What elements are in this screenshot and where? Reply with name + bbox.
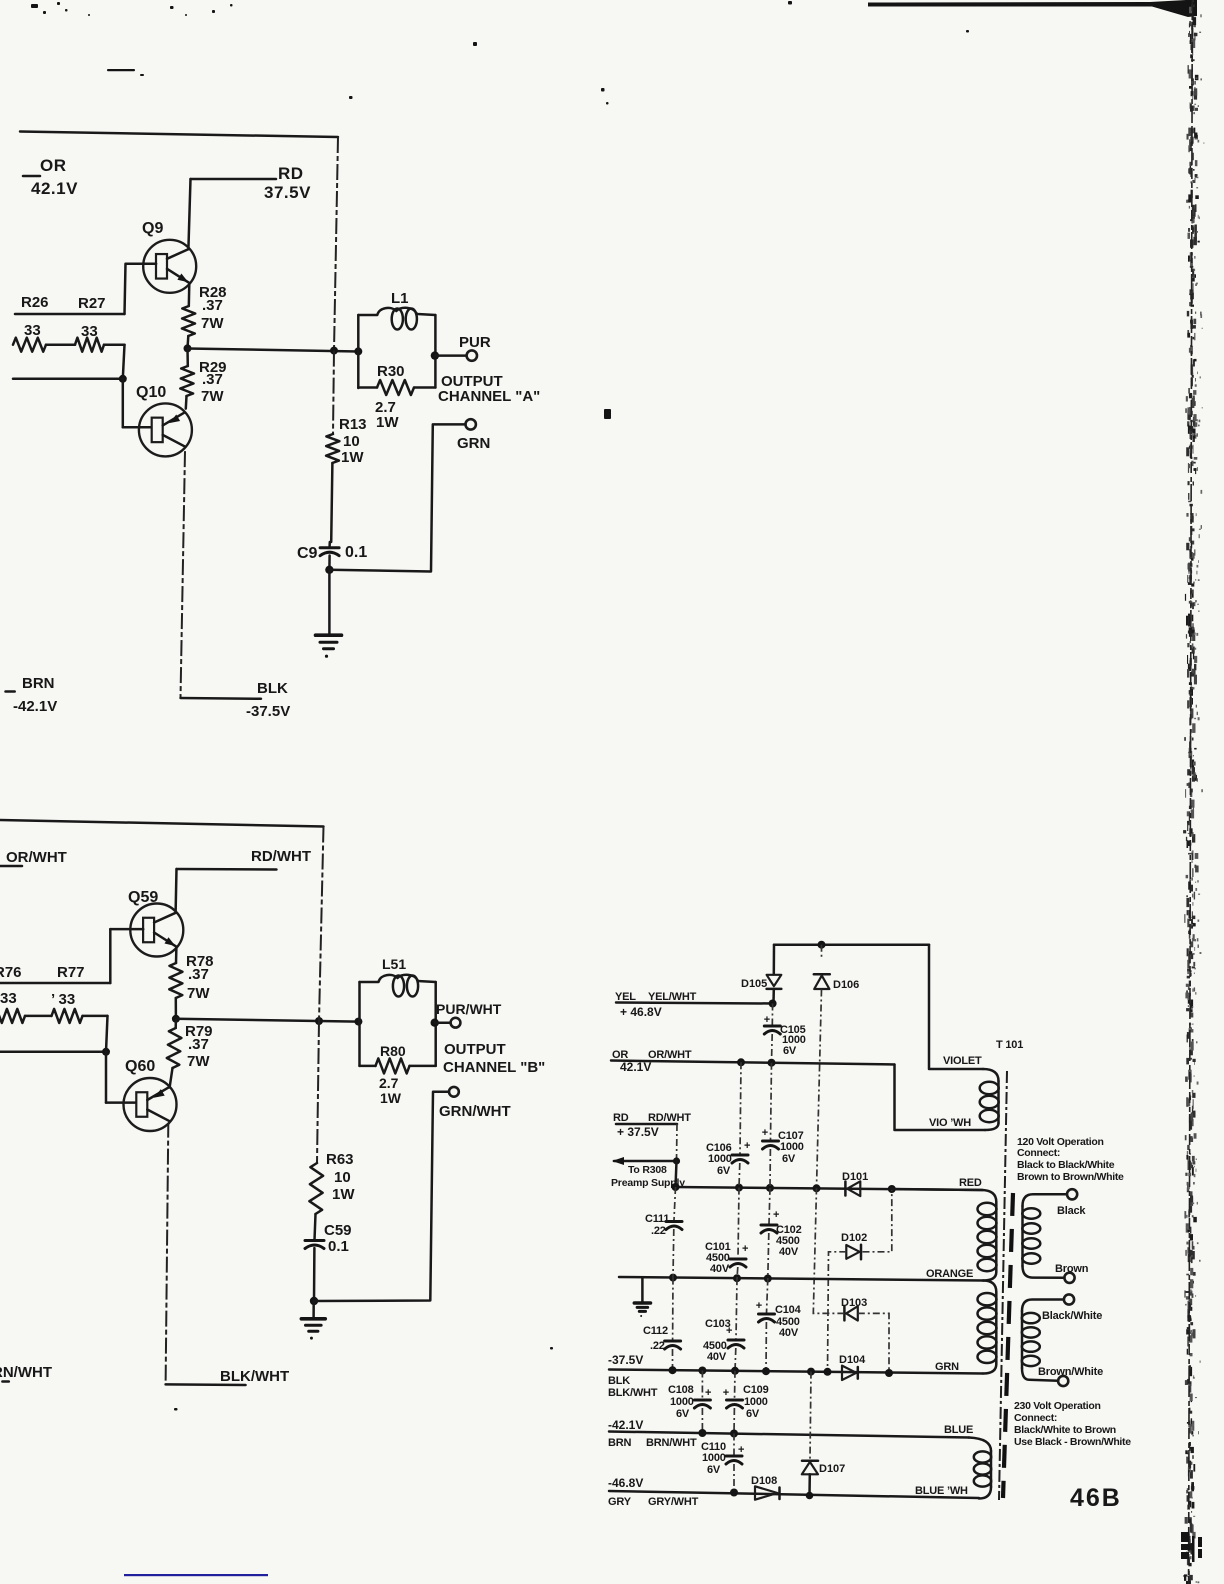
svg-text:YEL: YEL bbox=[615, 991, 636, 1003]
svg-text:D101: D101 bbox=[842, 1171, 868, 1183]
svg-text:GRY: GRY bbox=[608, 1496, 632, 1508]
svg-text:6V: 6V bbox=[746, 1408, 760, 1420]
transistor Q59 bbox=[130, 904, 183, 957]
terminal Black primary bbox=[1067, 1189, 1077, 1199]
wire output row channel B bbox=[176, 1019, 359, 1022]
node dot on main vertical bbox=[330, 347, 338, 355]
wire Q10 base lead bbox=[123, 426, 154, 429]
svg-text:To R308: To R308 bbox=[628, 1164, 667, 1176]
svg-text:1W: 1W bbox=[332, 1186, 355, 1203]
wire OR rail bbox=[611, 1061, 895, 1065]
wire R27 to corner bbox=[104, 343, 125, 346]
wire right bracket of L1/R30 bbox=[434, 315, 437, 388]
svg-text:PUR/WHT: PUR/WHT bbox=[436, 1001, 502, 1017]
wire Q59 collector to RD/WHT bbox=[174, 869, 177, 913]
capacitor C59 bbox=[305, 1239, 324, 1242]
svg-text:.22: .22 bbox=[651, 1225, 666, 1237]
svg-text:C109: C109 bbox=[743, 1384, 769, 1396]
svg-text:R30: R30 bbox=[377, 363, 405, 380]
svg-text:1000: 1000 bbox=[670, 1396, 694, 1408]
svg-text:OR/WHT: OR/WHT bbox=[648, 1049, 692, 1061]
ground (channel A) bbox=[316, 633, 342, 637]
node junction below C59 bbox=[313, 1248, 316, 1301]
terminal GRN return channel A bbox=[466, 419, 476, 429]
svg-text:Connect:: Connect: bbox=[1014, 1412, 1057, 1424]
svg-text:CHANNEL "A": CHANNEL "A" bbox=[438, 388, 540, 405]
svg-text:Brown: Brown bbox=[1055, 1263, 1089, 1275]
wire Q60 collector to BLK/WHT rail bbox=[166, 1122, 170, 1385]
capacitor C101 bbox=[738, 1188, 739, 1258]
svg-text:1W: 1W bbox=[376, 414, 399, 431]
wire R77 to corner bbox=[83, 1015, 108, 1018]
resistor R80 bbox=[360, 1065, 376, 1068]
capacitor C112 bbox=[672, 1278, 674, 1340]
svg-text:+ 46.8V: + 46.8V bbox=[620, 1005, 662, 1019]
diode D101 bbox=[844, 1182, 847, 1196]
svg-text:7W: 7W bbox=[201, 315, 224, 332]
capacitor C107 column bbox=[771, 1063, 772, 1140]
transistor Q9 bbox=[143, 240, 196, 293]
node dot BLK/C108 column bbox=[698, 1367, 706, 1375]
resistor R26 bbox=[13, 338, 46, 352]
svg-text:BLK/WHT: BLK/WHT bbox=[220, 1368, 289, 1385]
wire D102 anode to BLK rail (crosses ORANGE row) bbox=[828, 1252, 847, 1373]
svg-text:R77: R77 bbox=[57, 964, 85, 981]
svg-text:6V: 6V bbox=[676, 1408, 690, 1420]
wire BLK/WHT rail stub (channel B) bbox=[166, 1383, 246, 1386]
capacitor C106 bbox=[732, 1154, 748, 1157]
svg-text:R76: R76 bbox=[0, 964, 22, 981]
node dot GRY/D107 column bbox=[806, 1492, 814, 1500]
wire lower input row (channel B) bbox=[0, 1051, 106, 1054]
svg-text:Brown to Brown/White: Brown to Brown/White bbox=[1017, 1171, 1124, 1183]
node output junction A bbox=[184, 344, 192, 352]
wire GRN terminal to C9 node bbox=[329, 424, 465, 571]
svg-text:GRN: GRN bbox=[457, 435, 490, 452]
svg-text:BLK: BLK bbox=[608, 1375, 630, 1387]
node junction below C9 bbox=[328, 556, 331, 570]
svg-text:42.1V: 42.1V bbox=[31, 179, 78, 198]
svg-text:.37: .37 bbox=[188, 966, 209, 983]
svg-text:+: + bbox=[764, 1014, 770, 1026]
svg-text:D108: D108 bbox=[751, 1475, 777, 1487]
wire main vertical from OR rail to output node (channel A) bbox=[334, 137, 338, 351]
wire D106 anode down to RD rail (crosses OR row) bbox=[817, 990, 822, 1189]
svg-text:10: 10 bbox=[343, 433, 360, 450]
diode D104 bbox=[842, 1366, 856, 1380]
wire D103 cathode up to RD rail (crosses ORANGE row) bbox=[813, 1188, 844, 1313]
svg-text:R13: R13 bbox=[339, 416, 367, 433]
svg-text:42.1V: 42.1V bbox=[620, 1060, 651, 1074]
node dot at damping network input B bbox=[354, 1018, 362, 1026]
transformer T101 VIOLET winding bbox=[983, 1069, 999, 1081]
wire D103 anode down to GRN end of BLK rail bbox=[858, 1313, 889, 1373]
wire C9 node to ground bbox=[328, 570, 331, 635]
svg-text:C111: C111 bbox=[645, 1213, 669, 1225]
capacitor C103 bbox=[736, 1278, 737, 1339]
svg-text:OUTPUT: OUTPUT bbox=[444, 1041, 506, 1058]
svg-text:BLUE: BLUE bbox=[944, 1424, 973, 1436]
diode D106 bbox=[821, 945, 823, 958]
node output junction B bbox=[172, 1015, 180, 1023]
svg-text:+: + bbox=[742, 1243, 748, 1255]
svg-text:D104: D104 bbox=[839, 1354, 866, 1366]
wire corner down to lower row bbox=[123, 345, 125, 379]
svg-text:+ 37.5V: + 37.5V bbox=[617, 1125, 659, 1139]
wire main vertical to R63 bbox=[317, 1021, 319, 1163]
wire +42.1V OR rail top (channel A) bbox=[20, 132, 338, 138]
transformer core line thin bbox=[999, 1071, 1007, 1500]
node dot ORANGE/C102-C104 column bbox=[764, 1275, 772, 1283]
terminal PUR output channel A bbox=[467, 350, 477, 360]
svg-text:R80: R80 bbox=[380, 1043, 406, 1059]
transformer core line bold dashed bbox=[1003, 1193, 1013, 1498]
scan artifact top bar bbox=[868, 0, 1197, 17]
wire RD rail (channel A) bbox=[191, 178, 277, 181]
svg-text:-37.5V: -37.5V bbox=[608, 1353, 643, 1367]
svg-text:.37: .37 bbox=[202, 297, 223, 314]
ground (channel B) bbox=[301, 1317, 325, 1321]
node dot GRY/C110 column bbox=[730, 1489, 738, 1497]
wire RD rail stub bbox=[616, 1123, 677, 1126]
wire Q9 base lead bbox=[126, 262, 156, 265]
svg-text:Q60: Q60 bbox=[125, 1058, 155, 1075]
wire base vertical to R77 row bbox=[109, 929, 112, 983]
transformer primary Black-Brown winding bbox=[1023, 1194, 1068, 1206]
wire Q60 base lead bbox=[106, 1101, 139, 1104]
terminal Brown primary bbox=[1064, 1273, 1074, 1283]
svg-text:GRN: GRN bbox=[935, 1361, 959, 1373]
wire between R26 and R27 bbox=[46, 343, 75, 346]
scan artifact barcode blob bottom right bbox=[1181, 1532, 1202, 1562]
svg-text:VIO ’WH: VIO ’WH bbox=[929, 1117, 971, 1129]
wire BRN (-42.1) rail bbox=[609, 1432, 969, 1438]
wire to PUR terminal bbox=[435, 354, 466, 357]
node dot GRN side of D104 bbox=[885, 1369, 893, 1377]
wire preamp node down to RD rail bbox=[676, 1161, 677, 1187]
svg-text:+: + bbox=[738, 1444, 744, 1456]
node dot OR/C105-C107 column bbox=[768, 1059, 776, 1067]
svg-text:Q10: Q10 bbox=[136, 384, 166, 401]
wire YEL rail bbox=[616, 1003, 773, 1004]
svg-text:+: + bbox=[723, 1387, 729, 1399]
svg-text:T 101: T 101 bbox=[996, 1039, 1023, 1051]
svg-text:.22: .22 bbox=[650, 1340, 665, 1352]
wire C59 node to ground bbox=[312, 1301, 315, 1318]
svg-text:RD/WHT: RD/WHT bbox=[251, 848, 311, 865]
svg-text:PUR: PUR bbox=[459, 334, 491, 351]
node dot BLK/C103-C109 column bbox=[731, 1367, 739, 1375]
resistor R77 bbox=[52, 1009, 83, 1023]
wire BLK (-37.5) rail bbox=[609, 1370, 983, 1374]
diode D105 bbox=[773, 945, 776, 975]
svg-text:Black: Black bbox=[1057, 1205, 1086, 1217]
capacitor C106 column bbox=[740, 1062, 741, 1154]
svg-text:Q59: Q59 bbox=[128, 889, 158, 906]
wire main vertical to R13 bbox=[333, 351, 334, 434]
svg-text:Q9: Q9 bbox=[142, 220, 163, 237]
svg-text:33: 33 bbox=[81, 323, 98, 340]
svg-text:6V: 6V bbox=[707, 1464, 721, 1476]
wire R26/R27 input row bbox=[15, 313, 125, 316]
svg-text:1000: 1000 bbox=[708, 1153, 732, 1165]
capacitor C105 bbox=[771, 1004, 773, 1026]
transformer T101 RED-ORANGE winding bbox=[892, 1189, 997, 1202]
wire OR/WHT rail top (channel B) bbox=[0, 820, 324, 827]
svg-text:D105: D105 bbox=[741, 978, 767, 990]
svg-text:Use Black - Brown/White: Use Black - Brown/White bbox=[1014, 1436, 1131, 1448]
wire down to Q60 base bbox=[105, 1052, 108, 1103]
svg-text:D107: D107 bbox=[819, 1463, 845, 1475]
svg-text:0.1: 0.1 bbox=[345, 544, 367, 561]
svg-text:BRN: BRN bbox=[608, 1437, 631, 1449]
svg-text:7W: 7W bbox=[187, 1053, 210, 1070]
svg-text:D103: D103 bbox=[841, 1297, 867, 1309]
node dot RD/C107-C102 column bbox=[766, 1184, 774, 1192]
svg-text:-42.1V: -42.1V bbox=[13, 698, 57, 715]
svg-text:’ 33: ’ 33 bbox=[51, 991, 75, 1008]
svg-text:10: 10 bbox=[334, 1169, 351, 1186]
diode D103 bbox=[843, 1306, 846, 1320]
svg-text:+: + bbox=[756, 1300, 762, 1312]
resistor R30 bbox=[358, 386, 377, 389]
wire corner down to lower row bbox=[106, 1016, 108, 1052]
diode D107 bbox=[802, 1459, 818, 1462]
wire RD stub down to preamp arrow bbox=[676, 1124, 679, 1161]
svg-text:RN/WHT: RN/WHT bbox=[0, 1364, 52, 1381]
svg-text:GRN/WHT: GRN/WHT bbox=[439, 1103, 511, 1120]
svg-text:OR/WHT: OR/WHT bbox=[6, 849, 67, 866]
wire RD/WHT rail (channel B) bbox=[177, 868, 277, 871]
svg-text:RD: RD bbox=[278, 164, 304, 183]
resistor R79 (Q60 emitter) bbox=[174, 1019, 177, 1028]
svg-text:C9: C9 bbox=[297, 545, 318, 562]
capacitor C107 bbox=[763, 1140, 779, 1143]
svg-text:GRY/WHT: GRY/WHT bbox=[648, 1496, 699, 1508]
node dot BLK/C104 column bbox=[762, 1367, 770, 1375]
svg-text:.37: .37 bbox=[188, 1036, 209, 1053]
capacitor C110 bbox=[733, 1434, 735, 1456]
node output terminal junction A bbox=[431, 351, 439, 359]
svg-text:BRN: BRN bbox=[22, 675, 55, 692]
node dot top bus / D106 bbox=[818, 941, 826, 949]
transistor Q10 bbox=[139, 403, 192, 456]
svg-text:1000: 1000 bbox=[702, 1452, 726, 1464]
capacitor C111 column bbox=[674, 1187, 676, 1220]
node dot RD/D102 column bbox=[888, 1185, 896, 1193]
svg-text:-46.8V: -46.8V bbox=[608, 1476, 643, 1490]
wire output row channel A bbox=[188, 349, 359, 352]
wire Q59 base lead bbox=[110, 928, 143, 931]
svg-text:C104: C104 bbox=[775, 1304, 802, 1316]
node dot OR/C106 column bbox=[737, 1058, 745, 1066]
svg-text:-37.5V: -37.5V bbox=[246, 703, 290, 720]
scan artifact ink speckles bbox=[31, 1, 969, 1411]
svg-text:Black/White: Black/White bbox=[1042, 1310, 1102, 1322]
svg-text:+: + bbox=[726, 1325, 732, 1337]
svg-text:7W: 7W bbox=[201, 388, 224, 405]
resistor R27 bbox=[75, 338, 104, 352]
transistor Q60 bbox=[124, 1078, 177, 1131]
svg-text:-42.1V: -42.1V bbox=[608, 1418, 643, 1432]
node ORANGE ground tee bbox=[641, 1277, 644, 1302]
svg-text:37.5V: 37.5V bbox=[264, 183, 311, 202]
wire Q9 collector to RD rail bbox=[188, 179, 190, 249]
terminal PUR/WHT output channel B bbox=[451, 1018, 461, 1028]
wire between R76 and R77 bbox=[25, 1015, 52, 1018]
svg-text:7W: 7W bbox=[187, 985, 210, 1002]
wire R76/R77 input row (channel B) bbox=[0, 982, 110, 985]
svg-text:YEL/WHT: YEL/WHT bbox=[648, 991, 697, 1003]
svg-text:RD: RD bbox=[613, 1112, 629, 1124]
wire down to Q10 base bbox=[122, 379, 125, 428]
capacitor C102 bbox=[769, 1188, 770, 1224]
node dot BRN/C109-C110 column bbox=[730, 1430, 738, 1438]
node junction lower row / Q10 base bbox=[119, 375, 127, 383]
svg-text:33: 33 bbox=[0, 990, 17, 1007]
svg-text:R63: R63 bbox=[326, 1151, 354, 1168]
wire RD (+37.5) rail row bbox=[676, 1187, 984, 1190]
wire OR rail corner down to VIO/WH bbox=[895, 1065, 986, 1131]
scan artifact right edge stripe bbox=[1182, 0, 1204, 1584]
svg-text:+: + bbox=[762, 1127, 768, 1139]
inductor L1 bbox=[357, 315, 360, 388]
svg-text:ORANGE: ORANGE bbox=[926, 1268, 973, 1280]
node dot ORANGE/C101 column bbox=[733, 1274, 741, 1282]
svg-text:RED: RED bbox=[959, 1177, 982, 1189]
svg-text:D102: D102 bbox=[841, 1232, 867, 1244]
svg-text:R26: R26 bbox=[21, 294, 49, 311]
node dot at damping network input bbox=[354, 347, 362, 355]
resistor R28 (Q9 emitter) bbox=[188, 283, 191, 306]
svg-text:+: + bbox=[705, 1387, 711, 1399]
wire ORANGE rail bbox=[619, 1277, 983, 1281]
arrow To R308 preamp supply bbox=[614, 1160, 677, 1163]
resistor R76 bbox=[0, 1009, 25, 1023]
svg-text:D106: D106 bbox=[833, 979, 859, 991]
svg-text:Black/White to Brown: Black/White to Brown bbox=[1014, 1424, 1116, 1436]
svg-text:+: + bbox=[744, 1140, 750, 1152]
capacitor C104 bbox=[767, 1279, 768, 1314]
svg-text:6V: 6V bbox=[717, 1165, 731, 1177]
node dot BLK/C111-C112 column bbox=[669, 1366, 677, 1374]
terminal GRN/WHT return channel B bbox=[449, 1087, 459, 1097]
scan artifact blue pen line bottom bbox=[124, 1574, 268, 1576]
node dot RD rail left bbox=[672, 1183, 680, 1191]
svg-text:40V: 40V bbox=[707, 1351, 727, 1363]
node dot RD/D103 column bbox=[813, 1184, 821, 1192]
svg-text:0.1: 0.1 bbox=[328, 1238, 349, 1255]
svg-text:R27: R27 bbox=[78, 295, 106, 312]
svg-text:BLK: BLK bbox=[257, 680, 288, 697]
resistor R63 bbox=[309, 1163, 323, 1214]
capacitor C111 bbox=[666, 1220, 682, 1223]
node dot on main vertical B bbox=[315, 1017, 323, 1025]
node output terminal junction B bbox=[431, 1019, 439, 1027]
diode D108 bbox=[755, 1486, 778, 1499]
svg-text:BLUE ’WH: BLUE ’WH bbox=[915, 1485, 968, 1497]
svg-text:Connect:: Connect: bbox=[1017, 1147, 1060, 1159]
wire R13 to C9 bbox=[331, 463, 332, 542]
node dot BRN/C108 column bbox=[698, 1429, 706, 1437]
svg-text:L1: L1 bbox=[391, 290, 409, 307]
diode D102 bbox=[846, 1245, 859, 1259]
node dot ORANGE/C111 column bbox=[669, 1274, 677, 1282]
wire top bus down to VIOLET bbox=[929, 945, 983, 1069]
svg-text:BLK/WHT: BLK/WHT bbox=[608, 1387, 658, 1399]
svg-text:RD/WHT: RD/WHT bbox=[648, 1112, 691, 1124]
svg-text:40V: 40V bbox=[779, 1246, 799, 1258]
wire BLK rail stub (channel A) bbox=[181, 697, 262, 700]
transformer primary Black/White-Brown/White winding bbox=[1022, 1300, 1064, 1312]
svg-text:230 Volt Operation: 230 Volt Operation bbox=[1014, 1400, 1101, 1412]
svg-text:1W: 1W bbox=[380, 1090, 402, 1106]
svg-text:+: + bbox=[773, 1209, 779, 1221]
resistor R78 (Q59 emitter) bbox=[175, 947, 178, 963]
svg-text:46B: 46B bbox=[1070, 1484, 1122, 1512]
terminal Black/White primary bbox=[1064, 1294, 1074, 1304]
inductor L51 bbox=[358, 982, 361, 1066]
svg-text:Brown/White: Brown/White bbox=[1038, 1366, 1103, 1378]
svg-text:1W: 1W bbox=[341, 449, 364, 466]
wire diode top bus (D105/D106 cathode bus) bbox=[774, 943, 929, 946]
node junction lower row / Q60 base bbox=[102, 1048, 110, 1056]
transformer T101 ORANGE-GRN winding bbox=[983, 1281, 996, 1293]
svg-text:.37: .37 bbox=[202, 371, 223, 388]
svg-text:L51: L51 bbox=[382, 956, 406, 972]
node dot RD/C106 column bbox=[735, 1184, 743, 1192]
wire D102 cathode up to RD rail bbox=[863, 1189, 892, 1252]
wire main vertical channel B from OR/WHT rail bbox=[319, 827, 324, 1022]
svg-text:2.7: 2.7 bbox=[379, 1075, 399, 1091]
svg-text:C108: C108 bbox=[668, 1384, 694, 1396]
wire R63 to C59 bbox=[315, 1214, 316, 1240]
wire base vertical to R27 row bbox=[125, 264, 126, 314]
node dot YEL / C105 bbox=[769, 1000, 777, 1008]
wire GRY (-46.8) rail bbox=[609, 1491, 979, 1498]
svg-text:C112: C112 bbox=[643, 1325, 668, 1337]
node dot BLK/D102 column bbox=[824, 1368, 832, 1376]
terminal Brown/White primary bbox=[1058, 1376, 1068, 1386]
svg-text:6V: 6V bbox=[782, 1153, 796, 1165]
svg-text:Black to Black/White: Black to Black/White bbox=[1017, 1159, 1115, 1171]
transformer T101 BLUE winding bbox=[969, 1438, 991, 1452]
capacitor C108 bbox=[701, 1371, 703, 1400]
svg-text:40V: 40V bbox=[779, 1327, 799, 1339]
svg-text:1000: 1000 bbox=[780, 1141, 804, 1153]
wire Q10 collector to BLK rail bbox=[181, 451, 186, 698]
svg-text:OR: OR bbox=[40, 156, 67, 175]
svg-text:1000: 1000 bbox=[744, 1396, 768, 1408]
resistor R29 (Q10 emitter) bbox=[186, 348, 189, 366]
wire to PUR/WHT terminal bbox=[435, 1021, 450, 1024]
ground (ORANGE centre tap) bbox=[634, 1301, 650, 1305]
node dot BLK/D107 column bbox=[807, 1368, 815, 1376]
svg-text:VIOLET: VIOLET bbox=[943, 1055, 982, 1067]
capacitor C9 bbox=[328, 542, 331, 546]
svg-text:40V: 40V bbox=[710, 1263, 730, 1275]
resistor R13 bbox=[326, 434, 339, 463]
svg-text:C59: C59 bbox=[324, 1222, 352, 1239]
capacitor C109 bbox=[734, 1371, 737, 1399]
svg-text:BRN/WHT: BRN/WHT bbox=[646, 1437, 697, 1449]
wire D107 column from BLK rail (crosses BRN row) bbox=[810, 1372, 811, 1460]
wire GRN/WHT terminal to C59 node bbox=[314, 1092, 449, 1301]
svg-text:6V: 6V bbox=[783, 1045, 797, 1057]
wire lower input row (channel A) bbox=[13, 378, 123, 381]
svg-text:33: 33 bbox=[24, 322, 41, 339]
svg-text:CHANNEL "B": CHANNEL "B" bbox=[443, 1059, 545, 1076]
